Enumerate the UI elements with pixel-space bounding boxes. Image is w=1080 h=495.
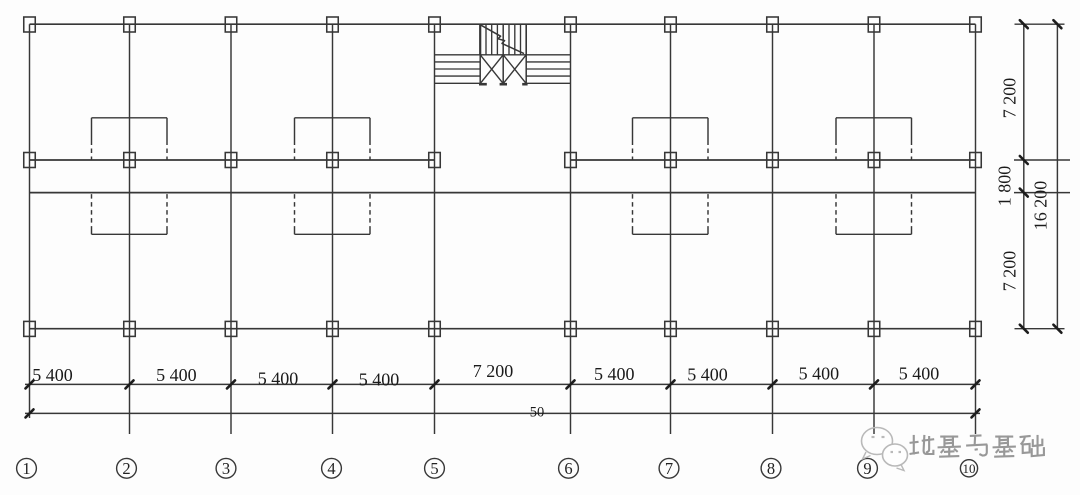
staircase: diagonal break line with zigzag: [481, 25, 524, 53]
grid line axis 4 (vertical): [332, 24, 334, 434]
svg-text:5 400: 5 400: [799, 364, 840, 384]
column Z7-B (middle row square): [665, 153, 677, 168]
axis bubble 2 (circled grid number): [117, 458, 137, 478]
staircase: inner stringer wall left: [479, 24, 481, 55]
grid line axis 3 (vertical): [230, 24, 232, 434]
foundation dashed outline below corridor at grid 9: [836, 194, 912, 234]
dimension text 16 200 (overall height, rotated): [1031, 181, 1051, 231]
staircase: cross braces (X) left flight: [480, 55, 503, 84]
dimension ticks on lower horizontal line: [26, 409, 980, 417]
svg-text:5 400: 5 400: [899, 364, 940, 384]
watermark text: 基: [993, 435, 1016, 456]
watermark text: 基: [938, 435, 961, 456]
column Z5-B (middle row square): [429, 153, 441, 168]
dimension text 5 400 (bay 8): [799, 364, 840, 384]
foundation dashed outline below corridor at grid 4: [295, 194, 371, 234]
staircase: foot marks at flight bottoms: [479, 83, 528, 86]
svg-text:4: 4: [327, 459, 335, 478]
svg-text:7 200: 7 200: [1000, 251, 1020, 292]
column Z7-A (top row square): [665, 17, 677, 32]
svg-text:6: 6: [564, 459, 572, 478]
dimension text 50 (overall, on line): [530, 405, 545, 421]
partition outline above axis B at grid 9 (solid top, dashed near line): [836, 118, 912, 160]
axis bubble 9 (circled grid number): [858, 458, 878, 478]
column Z8-B (middle row square): [767, 153, 779, 168]
dimension text 5 400 (bay 4): [359, 370, 400, 390]
svg-text:1 800: 1 800: [995, 166, 1015, 207]
wall: top exterior line (axis A): [30, 23, 976, 25]
axis bubble 3 (circled grid number): [216, 458, 236, 478]
column Z7-C (bottom row square): [665, 321, 677, 336]
svg-text:7: 7: [665, 459, 673, 478]
svg-text:2: 2: [122, 459, 130, 478]
column Z6-B (middle row square): [565, 153, 577, 168]
svg-text:8: 8: [767, 459, 775, 478]
column Z4-A (top row square): [327, 17, 339, 32]
svg-text:5 400: 5 400: [687, 365, 728, 385]
watermark text: 础: [1020, 435, 1044, 456]
partition outline above axis B at grid 2 (solid top, dashed near line): [92, 118, 168, 160]
svg-text:50: 50: [530, 405, 545, 421]
dimension text 7 200 (top right, rotated): [1000, 78, 1020, 119]
column Z2-B (middle row square): [124, 153, 136, 168]
partition outline above axis B at grid 4 (solid top, dashed near line): [295, 118, 371, 160]
column Z1-A (top row square): [24, 17, 36, 32]
svg-text:10: 10: [963, 461, 976, 476]
svg-text:5 400: 5 400: [594, 364, 635, 384]
watermark: WeChat icon (two chat bubbles): [862, 428, 908, 471]
staircase: right flight treads (horizontal): [526, 62, 570, 83]
staircase: cross braces (X) right flight: [503, 55, 526, 84]
axis bubble 5 (circled grid number): [425, 458, 445, 478]
column Z10-C (bottom row square): [970, 321, 982, 336]
column Z6-A (top row square): [565, 17, 577, 32]
grid line axis 6 (vertical): [570, 24, 572, 434]
dimension text 5 400 (bay 3): [258, 369, 299, 389]
column Z9-C (bottom row square): [868, 321, 880, 336]
grid line axis 2 (vertical): [129, 24, 131, 434]
svg-text:7 200: 7 200: [1000, 78, 1020, 119]
svg-text:3: 3: [222, 459, 230, 478]
grid line axis 9 (vertical): [873, 24, 875, 434]
svg-text:5: 5: [430, 459, 438, 478]
dimension ticks on outer vertical line: [1053, 20, 1061, 333]
dimension text 5 400 (bay 1): [32, 365, 73, 385]
partition outline above axis B at grid 7 (solid top, dashed near line): [633, 118, 709, 160]
svg-text:7 200: 7 200: [473, 361, 514, 381]
column Z4-B (middle row square): [327, 153, 339, 168]
wall: bottom exterior line (axis C): [30, 328, 976, 330]
column Z5-A (top row square): [429, 17, 441, 32]
column Z3-B (middle row square): [225, 153, 237, 168]
extension line at axis B: [1014, 159, 1070, 161]
column Z3-C (bottom row square): [225, 321, 237, 336]
column Z1-B (middle row square): [24, 153, 36, 168]
wall: corridor axis B line, right segment: [571, 159, 976, 161]
column Z2-A (top row square): [124, 17, 136, 32]
dimension text 1 800 (rotated): [995, 166, 1015, 207]
dimension text 5 400 (bay 6): [594, 364, 635, 384]
dimension text 5 400 (bay 7): [687, 365, 728, 385]
dimension text 5 400 (bay 9): [899, 364, 940, 384]
svg-text:5 400: 5 400: [32, 365, 73, 385]
svg-text:5 400: 5 400: [258, 369, 299, 389]
dimension ticks on inner vertical line: [1020, 20, 1028, 333]
foundation dashed outline below corridor at grid 7: [633, 194, 709, 234]
column Z9-B (middle row square): [868, 153, 880, 168]
axis bubble 7 (circled grid number): [659, 458, 679, 478]
axis bubble 4 (circled grid number): [322, 458, 342, 478]
dimension text 7 200 (bay 5): [473, 361, 514, 381]
axis bubble 1 (circled grid number): [17, 458, 37, 478]
column Z10-B (middle row square): [970, 153, 982, 168]
column Z6-C (bottom row square): [565, 321, 577, 336]
staircase: upper flight treads (vertical): [486, 24, 521, 55]
grid line axis 5 (vertical): [434, 24, 436, 434]
dimension text 7 200 (bottom right, rotated): [1000, 251, 1020, 292]
column Z2-C (bottom row square): [124, 321, 136, 336]
axis bubble 8 (circled grid number): [761, 458, 781, 478]
column Z3-A (top row square): [225, 17, 237, 32]
axis bubble 6 (circled grid number): [559, 458, 579, 478]
svg-text:5 400: 5 400: [359, 370, 400, 390]
column Z9-A (top row square): [868, 17, 880, 32]
staircase: landing line across stairwell: [435, 54, 571, 56]
dimension line: upper horizontal (bay widths): [25, 383, 980, 385]
column Z1-C (bottom row square): [24, 321, 36, 336]
dimension ticks on upper horizontal line: [26, 380, 980, 388]
column Z5-C (bottom row square): [429, 321, 441, 336]
dimension line: outer vertical (16200): [1056, 24, 1058, 329]
grid line axis 7 (vertical): [670, 24, 672, 434]
staircase: lower stringer walls: [480, 55, 526, 84]
dimension text 5 400 (bay 2): [156, 365, 197, 385]
extension line at axis C (bottom): [1015, 328, 1065, 330]
extension line at corridor lower line: [1014, 192, 1070, 194]
column Z10-A (top row square): [970, 17, 982, 32]
foundation dashed outline below corridor at grid 2: [92, 194, 168, 234]
staircase: centre line between flights: [502, 24, 504, 83]
extension line at axis A (top): [1015, 23, 1065, 25]
grid line axis 1 (vertical): [29, 24, 31, 418]
svg-text:16 200: 16 200: [1031, 181, 1051, 231]
dimension line: inner vertical (7200/1800/7200): [1023, 24, 1025, 329]
wall: corridor lower line (full width): [30, 192, 976, 194]
axis bubble 10 (circled grid number): [960, 460, 977, 477]
staircase: inner stringer wall right: [525, 24, 527, 55]
wall: corridor axis B line, left segment (gap at stairwell): [30, 159, 435, 161]
dimension line: lower horizontal (overall width): [25, 412, 980, 414]
svg-text:9: 9: [863, 459, 871, 478]
watermark text: 与: [966, 435, 987, 455]
column Z8-C (bottom row square): [767, 321, 779, 336]
column Z8-A (top row square): [767, 17, 779, 32]
grid line axis 10 (vertical): [975, 24, 977, 434]
watermark text: 地: [910, 435, 935, 455]
svg-text:1: 1: [22, 459, 30, 478]
svg-text:5 400: 5 400: [156, 365, 197, 385]
staircase: left flight treads (horizontal): [435, 62, 481, 83]
grid line axis 8 (vertical): [772, 24, 774, 434]
column Z4-C (bottom row square): [327, 321, 339, 336]
